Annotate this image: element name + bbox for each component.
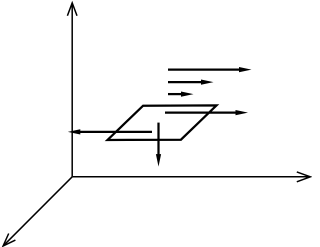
downward normal arrow	[156, 123, 161, 167]
y-axis	[67, 3, 77, 177]
velocity arrow v2	[168, 80, 214, 85]
x-axis	[72, 172, 310, 182]
velocity arrow v4 (through surface)	[165, 110, 248, 115]
velocity arrow v1 (top)	[168, 67, 252, 72]
leftward arrow	[68, 129, 152, 134]
velocity arrow v3	[168, 92, 194, 97]
z-axis	[3, 177, 72, 246]
surface parallelogram	[108, 105, 217, 140]
